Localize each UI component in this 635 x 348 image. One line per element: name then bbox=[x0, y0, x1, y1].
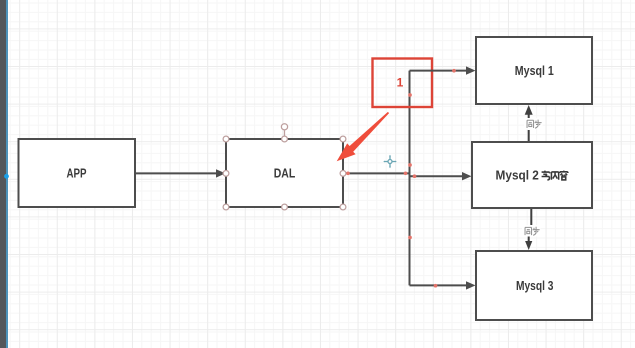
box DAL bbox=[226, 139, 343, 207]
svg-text:APP: APP bbox=[67, 167, 87, 181]
wire DAL to junction bbox=[345, 172, 411, 174]
wire trunk to Mysql 3 bbox=[410, 281, 476, 289]
wire Mysql 2 to Mysql 1 (sync up) bbox=[525, 105, 533, 142]
wire Mysql 2 to Mysql 3 (sync down) bbox=[525, 208, 532, 250]
svg-text:Mysql 2: Mysql 2 bbox=[496, 169, 539, 183]
wire vertical trunk bbox=[409, 71, 411, 286]
box APP bbox=[19, 139, 136, 207]
box Mysql 2 bbox=[472, 142, 592, 208]
selection handles on DAL bbox=[223, 124, 346, 210]
svg-text:1: 1 bbox=[397, 75, 404, 89]
box Mysql 3 bbox=[476, 251, 592, 320]
wire trunk to Mysql 1 bbox=[410, 66, 476, 74]
svg-text:DAL: DAL bbox=[274, 167, 296, 181]
left sidebar strip bbox=[0, 0, 8, 348]
sidebar blue marker dot bbox=[4, 174, 9, 179]
red waypoint dots bbox=[346, 69, 456, 288]
red annotation box bbox=[373, 59, 433, 108]
wire junction to Mysql 2 bbox=[410, 172, 472, 180]
svg-text:Mysql 3: Mysql 3 bbox=[516, 279, 554, 293]
red annotation arrow bbox=[337, 112, 389, 161]
wire APP to DAL bbox=[135, 169, 226, 177]
label sync 1 (tongbu) bbox=[524, 118, 543, 129]
box Mysql 1 bbox=[476, 37, 592, 104]
teal crosshair cursor bbox=[383, 155, 397, 169]
label sync 2 (tongbu) bbox=[522, 225, 541, 237]
svg-text:Mysql 1: Mysql 1 bbox=[515, 64, 554, 78]
